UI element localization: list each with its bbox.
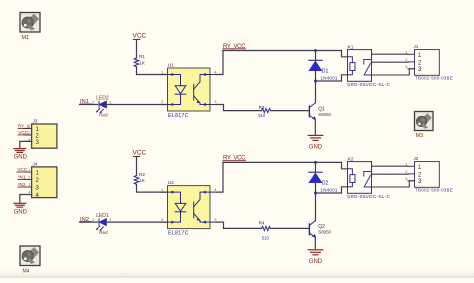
svg-text:1: 1 [405,162,407,166]
pin 3 stub [210,221,217,223]
wire rail to relay coil+ [342,51,348,57]
svg-text:1N4001: 1N4001 [320,187,337,192]
wire IN2 to LED1 [80,221,98,223]
svg-text:VCC: VCC [133,150,147,157]
svg-text:GND: GND [14,209,28,215]
svg-text:J2: J2 [414,156,419,161]
svg-text:K1: K1 [348,44,354,50]
svg-text:3: 3 [28,183,30,187]
svg-text:3: 3 [405,177,407,181]
opto-coupler U2 EL817C [161,180,217,236]
svg-text:2: 2 [405,58,407,62]
svg-text:SRD-05VDC-SL-C: SRD-05VDC-SL-C [347,82,391,87]
wire U1 pin3 to R3 [217,105,262,111]
mounting hole M3 [415,112,434,139]
pin 4 stub [210,74,217,76]
svg-text:EL817C: EL817C [168,230,189,236]
svg-text:J1: J1 [414,44,419,49]
wire R3 to Q1 base [271,110,309,112]
wire U2 pin4 to RY_VCC rail [217,162,223,192]
svg-text:GND: GND [14,155,28,161]
node D1 cathode junction [314,49,317,52]
svg-text:510: 510 [258,113,266,118]
K1 contacts [364,60,372,65]
resistor R3 510 [258,105,270,118]
svg-text:1K: 1K [139,178,146,183]
terminal block J1 TB002-500-03BE [405,44,453,80]
svg-text:U1: U1 [168,63,174,69]
wire J4 pin4 to ground [20,195,32,203]
svg-text:2: 2 [92,101,94,105]
relay K2 SRD-05VDC-SL-C [347,156,391,199]
svg-text:R3: R3 [259,105,265,110]
net label IN1 [80,99,92,105]
svg-text:1N4001: 1N4001 [320,75,337,80]
power port VCC (channel 2) [133,150,147,176]
svg-text:S8050: S8050 [318,230,331,235]
svg-text:TB002-500-03BE: TB002-500-03BE [415,76,453,81]
node D2 cathode junction [314,161,317,164]
svg-text:U2: U2 [168,180,174,186]
svg-text:K2: K2 [348,156,354,162]
svg-text:R4: R4 [259,221,265,226]
connector J3 [18,119,57,149]
wire K1 NC to J1 pin1 [372,54,408,59]
K1 coil [348,57,353,63]
diode D1 1N4001 [309,51,338,82]
wire K1 common to J1 pin3 [372,69,415,75]
resistor R1 1K [134,54,146,67]
svg-text:LED1: LED1 [96,213,109,219]
mounting hole M4 [20,246,40,275]
svg-text:M3: M3 [416,133,424,139]
wire K2 NO to J2 pin2 [372,173,408,175]
ground (J3) [14,149,28,161]
wire IN1 to LED2 [80,104,98,106]
svg-text:R2: R2 [139,172,145,177]
wire D2 anode to Q2 collector [315,193,317,221]
LED LED2 Red [92,96,111,118]
connector J4 [17,162,57,199]
svg-text:1: 1 [405,50,407,54]
svg-text:SRD-05VDC-SL-C: SRD-05VDC-SL-C [347,194,391,199]
pin 4 stub [210,191,217,193]
wire LED2 to U1 pin 2 [106,104,167,106]
svg-text:2: 2 [92,218,94,222]
net label RY_VCC (channel 2) [223,156,246,162]
wire K2 common to J2 pin3 [372,181,415,187]
resistor R4 510 [259,221,271,241]
wire R1 to U1 pin 1 [137,67,168,75]
wire R2 to U2 pin 1 [137,184,168,192]
wire R4 to Q2 base [271,227,309,229]
wire LED1 to U2 pin 2 [106,221,167,223]
ground (Q1) [308,135,323,150]
power port VCC (channel 1) [133,33,147,58]
svg-text:2: 2 [28,176,30,180]
K2 coil [348,169,353,175]
svg-text:R1: R1 [139,54,145,59]
wire D1 anode to Q1 collector [315,81,317,103]
terminal block J2 TB002-500-03BE [405,156,453,192]
U1 internals [168,73,211,106]
svg-text:D2: D2 [322,181,329,187]
svg-text:M4: M4 [23,269,30,275]
svg-text:LED2: LED2 [96,96,109,102]
svg-text:Red: Red [99,113,108,118]
wire U1 pin4 to RY_VCC rail [217,51,223,75]
wire RY_VCC rail [223,50,342,52]
svg-text:2: 2 [28,131,30,135]
pin 1 stub [161,74,168,76]
svg-text:1K: 1K [139,60,146,65]
wire Q2 emitter to ground [314,237,316,249]
LED LED1 Red [92,213,111,235]
transistor Q1 S8050 [309,103,331,120]
diode D2 1N4001 [309,162,338,193]
ground (Q2) [308,250,323,265]
op-to-coupler U1 EL817C [161,63,217,119]
pin 3 stub [210,104,217,106]
node coil- junction [314,80,317,83]
wire K2 NC to J2 pin1 [372,166,408,171]
svg-text:S8050: S8050 [318,112,331,117]
ground (J4) [14,203,28,215]
wire rail to relay K2 coil+ [342,162,348,168]
pin 1 stub [161,191,168,193]
net label IN2 [80,217,92,223]
mounting hole M1 [20,13,40,42]
pin 2 stub [161,104,168,106]
U2 internals [168,191,211,224]
svg-text:Red: Red [99,230,108,235]
svg-text:D1: D1 [322,69,329,75]
transistor Q2 S8050 [309,221,331,238]
svg-text:510: 510 [262,236,270,241]
wire relay coil- to D1 anode junction [316,75,348,81]
wire RY_VCC rail 2 [223,161,342,163]
svg-text:GND: GND [309,145,323,151]
relay K1 SRD-05VDC-SL-C [347,44,391,87]
resistor R2 1K [134,172,146,185]
svg-text:3: 3 [405,65,407,69]
K2 contacts [364,172,372,177]
node K2 coil- junction [314,192,317,195]
wire K1 NO to J1 pin2 [372,61,408,63]
svg-text:EL817C: EL817C [168,113,189,119]
svg-text:2: 2 [405,170,407,174]
pin 2 stub [161,221,168,223]
svg-text:M1: M1 [22,35,30,41]
svg-text:J4: J4 [33,162,38,167]
wire J3 pin3 to ground [20,141,32,147]
wire U2 pin3 to R4 [217,222,262,228]
svg-text:RY_V: RY_V [18,124,29,129]
net label RY_VCC (channel 1) [223,44,246,50]
wire Q1 emitter to ground [314,120,316,135]
wire K2 coil- to D2 anode junction [316,187,348,193]
svg-text:VCC: VCC [133,33,147,40]
svg-text:GND: GND [309,259,323,265]
svg-text:1: 1 [28,168,30,172]
svg-text:TB002-500-03BE: TB002-500-03BE [415,188,453,193]
svg-text:J3: J3 [33,119,38,124]
